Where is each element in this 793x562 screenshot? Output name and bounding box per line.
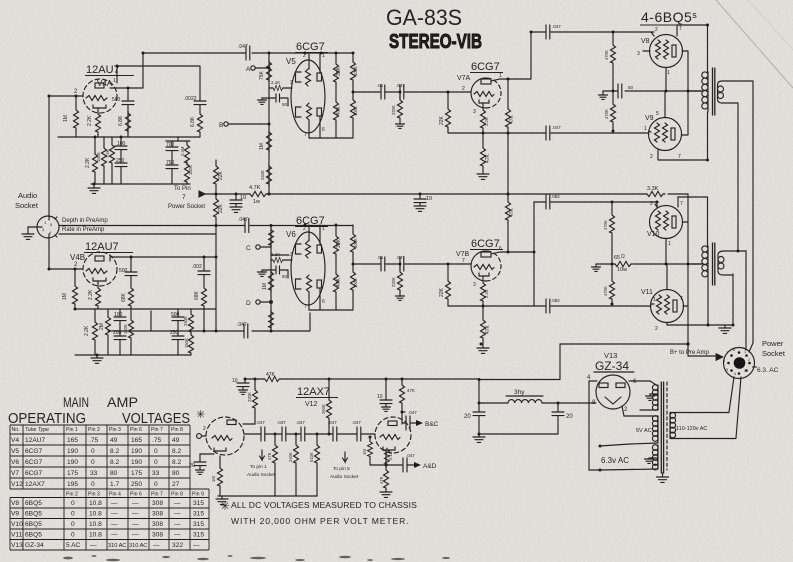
junction 707.5,160 [706, 159, 709, 162]
resistor 33K x336 V6 [335, 225, 337, 234]
svg-text:1: 1 [668, 241, 671, 247]
junction 400,264 [399, 263, 402, 266]
resistor 6.8K x200 [198, 112, 203, 134]
tube V13 GZ-34 [596, 375, 630, 409]
ground HT center tap [650, 394, 658, 396]
svg-text:4.7K: 4.7K [249, 185, 261, 191]
ground V12 bottom [221, 496, 223, 499]
resistor 3.3K in rail [645, 191, 665, 196]
capacitor 750 x172 [166, 165, 178, 169]
PT 6.3V winding [657, 445, 659, 469]
svg-text:Pin 2: Pin 2 [88, 427, 100, 433]
svg-text:.047: .047 [396, 83, 405, 88]
V12b cathode lead [385, 450, 387, 465]
junction 613,91 [612, 90, 615, 93]
node A terminal [251, 66, 255, 70]
power socket bottom leads [729, 377, 741, 438]
svg-text:315: 315 [193, 532, 204, 539]
wire input bus lower [49, 238, 83, 269]
PT primary winding [669, 413, 671, 438]
wire V6 output y264 [353, 263, 381, 265]
svg-text:Depth in PreAmp: Depth in PreAmp [62, 218, 108, 224]
svg-text:6BQ5: 6BQ5 [25, 511, 42, 518]
V10 grid stub [655, 204, 657, 207]
capacitor 20 x558 [557, 403, 559, 412]
svg-text:2.1K: 2.1K [388, 451, 393, 460]
wire V7A cathode line y133 [448, 132, 613, 134]
junction 531,32 [530, 31, 533, 34]
svg-text:190: 190 [67, 448, 78, 455]
svg-text:WITH 20,000 OHM PER VOLT METE: WITH 20,000 OHM PER VOLT METER. [231, 516, 409, 526]
resistor 1M V6 grid [269, 270, 274, 292]
svg-text:Audio Socket: Audio Socket [330, 474, 359, 480]
V8 pin7 stub [676, 25, 678, 36]
ground V6 cathode cap [262, 270, 271, 272]
svg-text:310 AC: 310 AC [108, 543, 126, 549]
svg-text:—: — [132, 521, 139, 528]
junction 479,403 [478, 402, 481, 405]
V7B grid zigzag [474, 265, 494, 270]
resistor 68K#2 V4B [202, 286, 207, 308]
svg-text:V13: V13 [11, 542, 23, 549]
svg-text:To pin 1: To pin 1 [250, 464, 267, 470]
choke 3hy [508, 400, 542, 403]
tube V12b [375, 417, 411, 453]
resistor 220K V5 out [399, 92, 401, 98]
resistor 120K x187 [185, 162, 190, 184]
capacitor 200 x120 [114, 336, 126, 340]
capacitor 250 x121 [115, 163, 127, 167]
svg-text:165: 165 [67, 437, 78, 444]
wire filter node riser x479 [478, 380, 480, 413]
svg-text:V12: V12 [305, 401, 318, 408]
capacitor 50 V6 cathode [271, 266, 288, 278]
svg-text:2: 2 [203, 426, 206, 432]
svg-text:6BQ5: 6BQ5 [25, 500, 42, 507]
junction 75,309 [74, 308, 77, 311]
svg-text:250K: 250K [321, 404, 326, 414]
svg-text:80: 80 [172, 470, 180, 477]
capacitor 100 x121 [120, 137, 122, 146]
resistor 510K upper riser [269, 228, 274, 247]
wire mid rail y137 [58, 136, 200, 138]
svg-text:1: 1 [499, 73, 502, 79]
resistor 470K V9 grid [612, 91, 614, 102]
svg-text:.047: .047 [296, 420, 305, 425]
resistor 22K V7A grid [447, 92, 449, 107]
svg-text:GA-83S: GA-83S [386, 5, 462, 30]
svg-text:2: 2 [303, 226, 306, 232]
V9 bottom stub [657, 149, 659, 160]
svg-text:100: 100 [117, 141, 126, 147]
junction 242,194 [215, 193, 218, 196]
wire C-D feed y330 [108, 311, 310, 331]
svg-text:315: 315 [193, 500, 204, 507]
resistor 240K x191 [190, 309, 192, 312]
OT2 secondary winding [718, 251, 738, 275]
resistor 470K V8 grid [612, 32, 614, 43]
V12a plate bar [227, 420, 236, 425]
svg-text:1w: 1w [253, 199, 260, 205]
svg-text:10.8: 10.8 [89, 500, 102, 507]
svg-text:V11: V11 [11, 532, 23, 539]
svg-text:700: 700 [166, 142, 175, 148]
svg-text:.75: .75 [89, 437, 98, 444]
wire mid rail y309 [75, 308, 216, 310]
resistor 47K plate load V7A [507, 79, 509, 107]
resistor 47K V7B lower [482, 306, 484, 318]
wire cathode bus y264 [596, 263, 702, 265]
junction 329,379 [328, 378, 331, 381]
wire V7B cathode line y306 [448, 305, 534, 307]
svg-text:7: 7 [304, 132, 307, 138]
junction 204,331 [203, 330, 206, 333]
wire V6 grid stub [271, 254, 289, 256]
V10 cathode stub [665, 239, 667, 265]
V8 cathode stub [665, 68, 667, 92]
svg-text:.082: .082 [551, 194, 560, 199]
svg-text:510K: 510K [309, 452, 314, 462]
node D terminal [256, 300, 260, 304]
V10 internals [656, 211, 677, 230]
junction 305,225 [304, 224, 307, 227]
capacitor .047 depth line [245, 219, 249, 233]
svg-text:3hy: 3hy [514, 389, 525, 396]
resistor 47K V12b lower [385, 465, 387, 468]
svg-text:V5: V5 [11, 448, 19, 455]
svg-text:1: 1 [667, 70, 670, 76]
svg-text:0: 0 [91, 448, 95, 455]
resistor 4.7K 1w in rail [203, 193, 248, 195]
resistor 470K V10 grid [611, 202, 613, 213]
svg-text:12AU7: 12AU7 [85, 241, 119, 253]
svg-text:10: 10 [426, 196, 432, 202]
V5 pin6 stub [319, 116, 321, 138]
wire ground rail y184 [91, 183, 190, 185]
capacitor .047 B&C [402, 422, 405, 424]
svg-text:5: 5 [726, 368, 728, 372]
V4A cathode [93, 105, 106, 108]
V10 plate stub [677, 197, 679, 207]
junction 49,269 [48, 268, 51, 271]
resistor 2.2K to gnd x95 [94, 309, 96, 320]
wire to V8 grid y32 [531, 31, 613, 33]
ground cathode bus [602, 91, 604, 95]
svg-text:49: 49 [172, 437, 180, 444]
svg-text:308: 308 [152, 511, 163, 518]
resistor 470K V11 grid [611, 264, 613, 279]
svg-text:.047: .047 [238, 217, 248, 223]
junction 612,202 [611, 201, 614, 204]
junction 353,53 [352, 52, 355, 55]
svg-text:.047: .047 [406, 453, 415, 458]
ground speaker return [724, 325, 726, 328]
svg-text:Pin 1: Pin 1 [66, 427, 78, 433]
svg-text:120K: 120K [123, 324, 128, 334]
svg-text:3: 3 [290, 80, 293, 86]
PT HT bottom lead [640, 409, 658, 411]
svg-text:Pin 7: Pin 7 [151, 492, 163, 498]
resistor 1M V4A grid [75, 96, 77, 108]
svg-text:47K: 47K [485, 324, 491, 334]
junction 97,355 [96, 354, 99, 357]
OT1 center tap [688, 90, 702, 92]
capacitor .082 V10 grid [546, 195, 550, 209]
capacitor 250 x178 [172, 336, 184, 340]
capacitor 20 x479 [473, 412, 485, 416]
svg-text:6.8K: 6.8K [118, 115, 124, 126]
wire B+ rail y380 [479, 344, 560, 380]
arrow B+ preamp [716, 354, 723, 361]
resistor 220K V6 out [399, 264, 401, 270]
ground cathode bus lower [595, 264, 597, 267]
svg-text:12AX7: 12AX7 [297, 386, 330, 398]
V9 grid stub [649, 131, 651, 132]
svg-text:Pin 9: Pin 9 [192, 492, 204, 498]
svg-text:470K: 470K [603, 286, 608, 296]
resistor 65ohm 10w hum [613, 261, 633, 266]
svg-text:3: 3 [744, 369, 746, 373]
svg-text:V8: V8 [641, 38, 650, 45]
PT core [661, 382, 663, 473]
svg-text:6CG7: 6CG7 [25, 459, 43, 466]
svg-text:100K: 100K [353, 278, 358, 288]
V7A grid wire [404, 91, 471, 93]
svg-text:6: 6 [322, 127, 325, 133]
svg-text:250: 250 [116, 158, 125, 164]
wire y66 sub-rail [117, 65, 200, 67]
V8 internals [656, 40, 677, 59]
svg-text:0: 0 [71, 511, 75, 518]
V12a cathode resistor 1M [219, 456, 221, 466]
svg-text:.0022: .0022 [184, 96, 197, 102]
resistor 7.5K x112 [111, 137, 113, 143]
svg-text:195: 195 [67, 481, 78, 488]
svg-text:100K: 100K [353, 106, 358, 116]
svg-text:V11: V11 [641, 289, 653, 296]
V5 grid riser x269 [268, 53, 270, 194]
svg-text:V4A: V4A [97, 79, 113, 88]
arrow to pin5 audio socket [343, 452, 348, 462]
svg-text:To Pin: To Pin [174, 186, 191, 192]
svg-text:110-120v AC: 110-120v AC [676, 426, 707, 432]
svg-text:250: 250 [131, 481, 142, 488]
svg-text:Power: Power [762, 339, 784, 348]
svg-text:10: 10 [240, 195, 246, 201]
svg-text:190: 190 [131, 448, 142, 455]
V11 top stub [666, 264, 668, 290]
svg-text:1: 1 [644, 126, 647, 132]
resistor 47K x336 [335, 84, 337, 100]
V11 grid stub [651, 303, 654, 305]
tube V7B [471, 251, 486, 281]
capacitor .047 A&D [403, 458, 407, 472]
V7A grid zigzag [474, 92, 494, 97]
V7B grid wire [404, 263, 471, 265]
svg-text:V12: V12 [11, 481, 23, 488]
svg-text:—: — [132, 532, 139, 539]
tube V5 oval [291, 60, 325, 133]
svg-text:6CG7: 6CG7 [296, 215, 325, 227]
svg-text:—: — [193, 542, 200, 549]
svg-text:47K: 47K [509, 114, 515, 124]
svg-text:7: 7 [462, 258, 465, 264]
V6 pin1 riser [319, 225, 321, 245]
voltage table upper grid [10, 425, 190, 489]
resistor 240K on riser [267, 164, 272, 186]
svg-text:—: — [153, 542, 160, 549]
junction 400,92 [399, 91, 402, 94]
capacitor 10 x386 [385, 379, 387, 400]
svg-text:1M: 1M [362, 449, 367, 455]
junction 49,96 [48, 95, 51, 98]
PT 5V terminal [599, 445, 602, 448]
PT primary top lead [670, 412, 729, 414]
wire V12 top rail y373 [245, 378, 479, 380]
wire A&D tap [370, 464, 402, 466]
svg-text:308: 308 [152, 532, 163, 539]
svg-text:7.5K: 7.5K [105, 149, 110, 158]
wire V12b output B&C [402, 411, 405, 413]
svg-text:22K: 22K [218, 170, 224, 180]
svg-text:—: — [174, 511, 181, 518]
svg-text:Socket: Socket [762, 349, 786, 358]
svg-text:6CG7: 6CG7 [471, 61, 500, 73]
svg-text:500: 500 [119, 268, 128, 274]
wire to V10 grid y202 [534, 202, 657, 207]
wire V11 plate y331 [667, 281, 733, 325]
junction 708,325 [707, 324, 710, 327]
svg-text:Audio: Audio [18, 191, 37, 200]
wire top rail right y53 [269, 52, 353, 54]
capacitor 100 x120 [119, 309, 121, 317]
svg-text:Ω: Ω [621, 254, 625, 260]
svg-text:22K: 22K [439, 115, 445, 125]
svg-text:V7A: V7A [457, 75, 471, 82]
tube V10 [650, 206, 683, 239]
wire V8 grid [613, 31, 654, 33]
capacitor .047 V5 out [400, 85, 404, 99]
svg-text:No.: No. [12, 427, 20, 433]
svg-text:—: — [111, 532, 118, 539]
svg-text:100K: 100K [353, 66, 358, 76]
svg-text:1M: 1M [63, 115, 69, 122]
svg-text:22K: 22K [218, 203, 224, 213]
PT HT winding [657, 385, 659, 410]
capacitor .082 V11 grid [546, 299, 550, 313]
capacitor 10 on rail x260 [235, 194, 237, 200]
svg-text:175: 175 [131, 470, 142, 477]
V7B coupling riser x534 [533, 202, 535, 306]
wire OT2 secondary bottom x733 [732, 274, 734, 325]
wire V5 bottom y138 [309, 137, 353, 139]
svg-text:2: 2 [655, 27, 658, 33]
V4B plate rect [95, 256, 104, 261]
svg-text:V6: V6 [286, 230, 296, 239]
resistor 2.1K V12b cathode [385, 448, 390, 466]
svg-text:V10: V10 [647, 231, 660, 238]
svg-text:1: 1 [322, 53, 325, 59]
resistor 22K x216 lower [215, 194, 217, 197]
svg-text:6BQ5: 6BQ5 [25, 521, 42, 528]
V7A plate riser x531 [530, 32, 532, 79]
V13 pin4 wire to heater [589, 381, 600, 470]
svg-text:—: — [90, 542, 97, 549]
svg-text:V10: V10 [11, 521, 23, 528]
capacitor 500 V4A plate [127, 88, 129, 101]
svg-text:6CG7: 6CG7 [25, 470, 43, 477]
junction 733,325 [732, 324, 735, 327]
svg-text:500: 500 [171, 312, 180, 318]
wire V6 bottom y310 [309, 309, 353, 311]
wire left loop x216 [215, 226, 217, 332]
svg-text:33K: 33K [336, 66, 342, 76]
V6 grid entry 2.1K [271, 259, 272, 261]
capacitor .047 V9 grid [546, 126, 550, 140]
wire between caps V6 [385, 263, 400, 265]
svg-text:6CG7: 6CG7 [471, 238, 500, 250]
junction 336,53 [335, 52, 338, 55]
V5 upper grid bracket [296, 72, 302, 82]
V12b grid zigzag [380, 435, 400, 440]
power socket circle [724, 348, 755, 379]
V7A cathode [479, 100, 489, 103]
svg-text:7: 7 [680, 296, 683, 302]
ground audio socket [28, 227, 37, 234]
svg-text:V6: V6 [11, 459, 19, 466]
svg-text:49: 49 [110, 437, 118, 444]
ground V12b [380, 492, 392, 497]
svg-text:10.8: 10.8 [89, 521, 102, 528]
resistor 220K x255 [254, 379, 256, 388]
svg-text:C: C [246, 245, 251, 252]
V7B plate wire [491, 252, 534, 254]
junction 666,264 [665, 263, 668, 266]
svg-text:.047: .047 [552, 24, 561, 29]
junction 329,434 [328, 433, 331, 436]
PT 6.3V terminal [599, 469, 602, 472]
svg-text:5V AC: 5V AC [636, 428, 652, 434]
tube V12a [206, 417, 244, 455]
OT1 secondary winding [718, 81, 754, 103]
svg-text:47K: 47K [266, 372, 276, 378]
resistor 47K plate V12b [401, 379, 403, 383]
junction 296,434 [295, 433, 298, 436]
svg-text:AMP: AMP [107, 394, 138, 410]
junction 269,53 [268, 52, 271, 55]
capacitor .047 top rail [246, 46, 250, 60]
resistor 150K x191 [189, 333, 194, 355]
svg-text:470K: 470K [604, 109, 609, 119]
svg-text:—: — [174, 521, 181, 528]
resistor 47K plate load V7B [507, 194, 509, 200]
svg-text:.047: .047 [396, 255, 405, 260]
V5 pin1 riser [319, 53, 321, 73]
svg-text:2.2K: 2.2K [87, 115, 93, 126]
tube V4A [83, 79, 117, 113]
svg-text:4-6BQ5s: 4-6BQ5s [641, 9, 697, 25]
wire rate line [59, 233, 216, 235]
resistor 22K x216 upper [215, 160, 217, 164]
svg-text:0: 0 [91, 459, 95, 466]
svg-text:Power Socket: Power Socket [168, 204, 205, 210]
tube V9 [649, 118, 682, 151]
svg-text:4: 4 [734, 372, 736, 376]
svg-text:—: — [111, 511, 118, 518]
capacitor 50 V5 cathode [269, 94, 288, 106]
arrow B&C [416, 420, 423, 426]
svg-text:68K: 68K [121, 292, 127, 302]
